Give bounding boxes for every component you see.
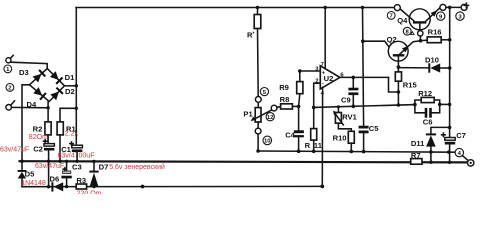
label terminal 5 <box>260 88 268 96</box>
label terminal 4 <box>455 148 463 156</box>
svg-text:C3: C3 <box>72 162 82 171</box>
wire bridge diamond edges <box>30 69 65 102</box>
node bus junction R11 <box>312 150 316 154</box>
capacitor C4 <box>294 106 304 151</box>
wire R2 to C2 <box>47 135 49 144</box>
node junction right vertical / R12 C6 <box>448 103 452 107</box>
label terminal 7 <box>387 12 395 20</box>
wire top rail <box>76 7 394 9</box>
node rail junction C3 <box>65 160 68 163</box>
node bus junction C5 <box>362 150 366 154</box>
wire pin2 elbow down to feedback node <box>314 83 321 107</box>
svg-text:Q2: Q2 <box>387 35 397 44</box>
svg-text:R8: R8 <box>280 95 290 104</box>
label terminal 2 <box>6 84 14 92</box>
node rail junction D5 <box>20 160 23 163</box>
svg-text:D10: D10 <box>425 55 439 64</box>
svg-text:C7: C7 <box>456 131 466 140</box>
svg-text:63v/4700uF: 63v/4700uF <box>58 152 95 159</box>
wire left vertex jog down to D5 <box>22 85 30 170</box>
capacitor C5 <box>359 126 369 152</box>
label terminal 12 <box>266 113 274 121</box>
wire feedback bus B <box>314 105 415 108</box>
node junction right vertical top <box>448 6 452 10</box>
svg-text:-: - <box>322 81 324 87</box>
svg-text:5.6v зенеревский: 5.6v зенеревский <box>109 163 165 171</box>
terminal 5 bubble <box>255 97 261 103</box>
wire right vertical trunk <box>449 7 451 137</box>
node junction loop right <box>438 103 442 107</box>
svg-text:D11: D11 <box>411 139 425 148</box>
wire output elbow to R15 bottom <box>389 77 399 92</box>
transistor Q2 <box>388 41 420 67</box>
resistor R1 <box>57 122 63 135</box>
svg-text:12: 12 <box>267 115 274 121</box>
svg-text:C6: C6 <box>423 117 433 126</box>
node bus junction P1 <box>256 149 260 153</box>
wire right vertex to trunk <box>65 85 77 87</box>
transistor Q4 <box>400 8 440 31</box>
wire pin3 <box>300 70 321 72</box>
resistor R11 <box>311 107 317 151</box>
svg-text:D7: D7 <box>99 162 109 171</box>
node rail junction R1 <box>58 160 61 163</box>
svg-text:Q4: Q4 <box>397 16 408 25</box>
wiper arrow P1 <box>251 110 272 121</box>
node junction top rail / U2 pin7 <box>324 6 327 9</box>
resistor R2 <box>45 122 51 135</box>
diode D11 (zener pointing up) <box>426 127 450 162</box>
node bus junction D11 <box>429 150 433 154</box>
wire Q2 collector branch <box>363 41 395 54</box>
terminal 4 bubble with dot <box>462 156 474 166</box>
svg-text:C2: C2 <box>33 145 43 154</box>
svg-text:R3: R3 <box>76 176 86 185</box>
svg-text:R2: R2 <box>33 125 43 134</box>
terminal 8 bubble (Q4 base) <box>418 31 423 41</box>
resistor R10 <box>348 131 354 151</box>
node junction right vertical / D11 top <box>448 126 452 130</box>
op-amp U2 <box>320 66 340 89</box>
svg-text:11: 11 <box>314 141 323 150</box>
terminal 7 bubble (top rail end) <box>394 5 400 11</box>
capacitor C6 <box>425 108 432 118</box>
node lower wire junction D7 <box>92 185 95 188</box>
node bus junction C4 <box>297 149 301 153</box>
wire bottom lower wire <box>22 185 322 187</box>
svg-text:RV1: RV1 <box>342 112 357 121</box>
terminal 1 bubble <box>6 55 13 63</box>
node rail junction C1 <box>75 160 78 163</box>
label terminal 10 <box>263 136 272 145</box>
node wireB junction RV1 <box>337 105 340 108</box>
node lower wire corner U2 pin4 <box>320 185 324 189</box>
wire bottom common rail <box>20 161 468 162</box>
svg-text:D6: D6 <box>50 175 60 184</box>
label terminal 8 <box>403 27 414 35</box>
node junction R8/R9/C4 <box>297 105 301 109</box>
node junction terminal2 wire / bottom stem <box>46 106 49 109</box>
svg-text:D1: D1 <box>65 73 75 82</box>
svg-text:C4: C4 <box>285 131 295 140</box>
node junction trunk/right vertex <box>75 84 78 87</box>
svg-text:R10: R10 <box>333 134 347 143</box>
terminal 2 bubble <box>6 101 15 110</box>
node bus junction C7 <box>447 150 451 154</box>
diode D10 (pointing left) <box>398 63 449 72</box>
wire terminal2 to bridge bottom stem <box>12 106 49 108</box>
node junction wireB / R15 <box>397 103 401 107</box>
node junction Q4 base / Q2 emitter / R16 <box>419 39 423 43</box>
svg-text:R16: R16 <box>428 28 442 37</box>
wire R1 tee horizontal <box>60 108 76 122</box>
zener D7 <box>89 161 98 186</box>
node junction Q2 collector branch <box>361 39 365 43</box>
resistor R8 <box>281 104 293 109</box>
resistor R7 (in bottom rail) <box>411 159 422 165</box>
node junction R9/pin3 <box>298 69 302 73</box>
svg-text:+: + <box>322 71 326 77</box>
svg-text:R15: R15 <box>403 80 418 89</box>
node lower wire junction D6 left <box>47 185 50 188</box>
node junction R15 bottom <box>397 90 401 94</box>
node junction loop left <box>413 103 417 107</box>
node junction output/C9 <box>352 76 356 80</box>
plus mark at terminal 3 <box>464 3 468 7</box>
terminal 9 bubble (Q4 emitter) <box>440 4 446 10</box>
svg-text:P1: P1 <box>243 109 253 118</box>
pin 6 mark and output wire <box>340 73 389 79</box>
label terminal 3 <box>456 12 464 20</box>
node bus junction R10 <box>350 150 354 154</box>
resistor R12 <box>421 97 434 102</box>
label terminal 9 <box>437 12 445 20</box>
pin 7 mark and wire to top rail <box>321 8 326 69</box>
svg-text:D5: D5 <box>25 169 35 178</box>
wire R15 bottom down to wire B <box>397 92 399 105</box>
node junction top rail / R* <box>256 6 259 9</box>
node rail junction R2/C2 stub <box>47 160 50 163</box>
svg-text:D3: D3 <box>19 68 29 77</box>
wire main + trunk from top rail corner down to C1 <box>75 8 77 146</box>
svg-text:R9: R9 <box>279 83 289 92</box>
wire R8 to node <box>292 105 298 107</box>
node rail junction C7 <box>448 161 451 164</box>
node junction right vertical / R16 <box>448 38 452 42</box>
wire long vertical from top rail to C5 <box>363 8 364 126</box>
terminal 3 bubble <box>461 4 467 10</box>
wire wiper to R8 <box>277 106 281 109</box>
svg-text:D2: D2 <box>65 87 75 96</box>
terminal 10 bubble <box>255 128 261 151</box>
svg-text:R12: R12 <box>418 89 432 98</box>
wire bridge bottom stem down through R2 <box>47 101 49 122</box>
wire bus (component ground) <box>258 151 455 152</box>
diode D3 (upper-left edge, pointing to top vertex) <box>32 69 46 83</box>
diode D5 <box>18 170 27 187</box>
node lower wire junction mid <box>141 185 145 189</box>
wire R1 to bottom rail <box>59 135 61 161</box>
trimmer RV1 <box>333 107 343 125</box>
diode D6 (pointing left) <box>51 182 63 191</box>
node junction trunk/R1 tee <box>75 107 78 110</box>
wire C2 to bottom rail and stub to D6 junction <box>48 151 50 187</box>
resistor R15 <box>395 67 401 92</box>
diode D2 (lower-right edge, pointing to right vertex) <box>50 87 64 101</box>
resistor R16 <box>421 37 450 43</box>
capacitor C3 (electrolytic) <box>61 161 71 186</box>
wire C1 to bottom rail <box>76 152 78 161</box>
wire R12/C6 parallel loop <box>415 100 450 113</box>
wire terminal1 to bridge top vertex <box>11 62 47 68</box>
diode D1 (upper-right edge, pointing to right vertex) <box>50 71 64 85</box>
resistor R* <box>254 8 261 97</box>
svg-text:220 Om: 220 Om <box>77 190 102 194</box>
potentiometer P1 <box>255 102 261 128</box>
svg-text:D4: D4 <box>27 100 37 109</box>
node junction top rail / Q2 collector branch <box>361 6 364 9</box>
wire RV1 to R10 <box>338 123 351 131</box>
svg-text:63v/47uF: 63v/47uF <box>0 147 29 154</box>
node wireB junction C9 <box>352 105 356 109</box>
node lower wire junction C3 <box>65 185 68 188</box>
pin 4 mark and wire to lower wire <box>321 88 325 187</box>
svg-text:63v/47uF.: 63v/47uF. <box>35 163 65 170</box>
svg-text:R: R <box>305 141 311 150</box>
capacitor C9 <box>348 77 358 106</box>
diode D4 (lower-left edge, pointing to bottom vertex) <box>33 87 47 101</box>
capacitor C1 (electrolytic) <box>70 142 83 152</box>
svg-text:C9: C9 <box>341 96 351 105</box>
node junction Q2 base / R15 / D10 <box>397 65 401 69</box>
capacitor C2 (electrolytic) <box>44 140 55 151</box>
node rail junction D11 <box>429 161 432 164</box>
svg-text:10: 10 <box>264 139 271 145</box>
svg-text:2.2k: 2.2k <box>65 131 79 138</box>
resistor R9 <box>297 71 303 106</box>
wire terminal9 to terminal3 <box>446 6 461 8</box>
node rail junction D7 <box>92 160 95 163</box>
capacitor C7 (electrolytic) <box>442 133 456 162</box>
svg-text:R7: R7 <box>411 151 421 160</box>
node feedback node (pin2/R11/wireB) <box>312 106 316 110</box>
svg-text:C5: C5 <box>369 124 379 133</box>
label terminal 1 <box>4 65 12 73</box>
resistor R3 <box>76 184 86 189</box>
node junction right vertical / D10 <box>448 66 452 70</box>
wiper bubble (terminal 12) <box>271 105 277 111</box>
